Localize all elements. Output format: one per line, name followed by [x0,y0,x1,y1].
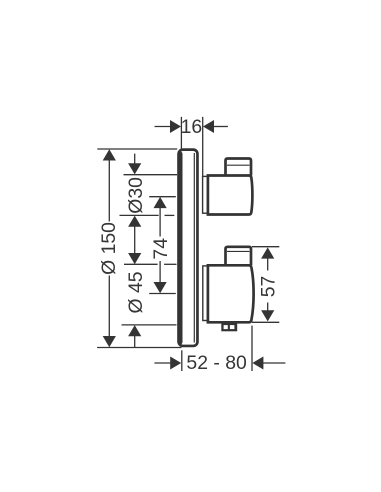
wall plate [179,150,198,346]
top handle body [208,176,253,215]
top handle sleeve [203,176,208,213]
bottom handle body [208,265,254,322]
dimension line upper [108,159,110,222]
bottom handle cap [226,247,252,265]
right arrow [252,357,263,370]
lower arrow (up) [128,216,141,227]
right arrow [203,120,214,133]
upper arrow (down) [128,163,141,174]
top boundary line right [164,263,176,265]
top extension line [252,246,279,248]
bottom center line [149,293,176,295]
left tail [154,362,172,364]
svg-text:Ø 45: Ø 45 [125,271,147,313]
right extension line [251,326,253,371]
lower tail [134,336,136,348]
dimension 52 - 80 (bottom) [154,326,285,375]
svg-text:52 - 80: 52 - 80 [186,352,247,374]
left arrow [170,357,181,370]
top handle cap [226,159,252,176]
svg-text:Ø 150: Ø 150 [98,222,120,275]
top boundary line [124,174,178,176]
dimension line upper [267,258,269,271]
left arrow [170,120,181,133]
svg-text:74: 74 [150,238,172,260]
bottom boundary line [122,324,177,326]
top arrow (up) [154,197,167,208]
dimension line upper [159,207,161,237]
left tail [155,126,172,128]
svg-text:16: 16 [181,116,203,138]
dimension line lower [108,276,110,338]
bottom extension line [252,321,279,323]
plate inner highlight line [193,153,195,343]
svg-text:57: 57 [257,276,279,298]
dimension D45 (bottom handle) [122,253,177,347]
top arrow [103,149,116,160]
dimension 74 (handle centers) [149,197,176,294]
left extension line [181,350,183,371]
bottom extension line [97,347,181,349]
top arrow (up) [261,247,274,258]
dimension D150 (left) [97,149,181,348]
dimension 16 (top) [155,116,228,176]
bottom boundary line left [120,214,159,216]
svg-text:Ø30: Ø30 [125,177,147,214]
right extension line [202,117,204,176]
bottom boundary line right [165,214,175,216]
dimension line lower [159,261,161,284]
bottom handle sleeve [203,266,208,321]
right tail [262,362,286,364]
bottom arrow (down) [261,310,274,321]
lower arrow (up) [128,325,141,336]
upper arrow (down) [128,253,141,264]
right tail [213,126,228,128]
lower tail joining D45 [134,226,136,254]
top boundary line left [124,263,158,265]
dimension D30 (top handle) [120,154,178,254]
lever tab [221,323,237,332]
bottom arrow (down) [154,282,167,293]
bottom arrow [103,336,116,347]
left extension line [180,117,182,149]
top handle cap groove [227,164,249,166]
dimension 57 (right) [252,247,279,323]
bottom handle cap groove [227,250,249,252]
upper tail [134,154,136,165]
top extension line [97,148,177,150]
dimension line lower [267,303,269,313]
top center line [149,196,176,198]
